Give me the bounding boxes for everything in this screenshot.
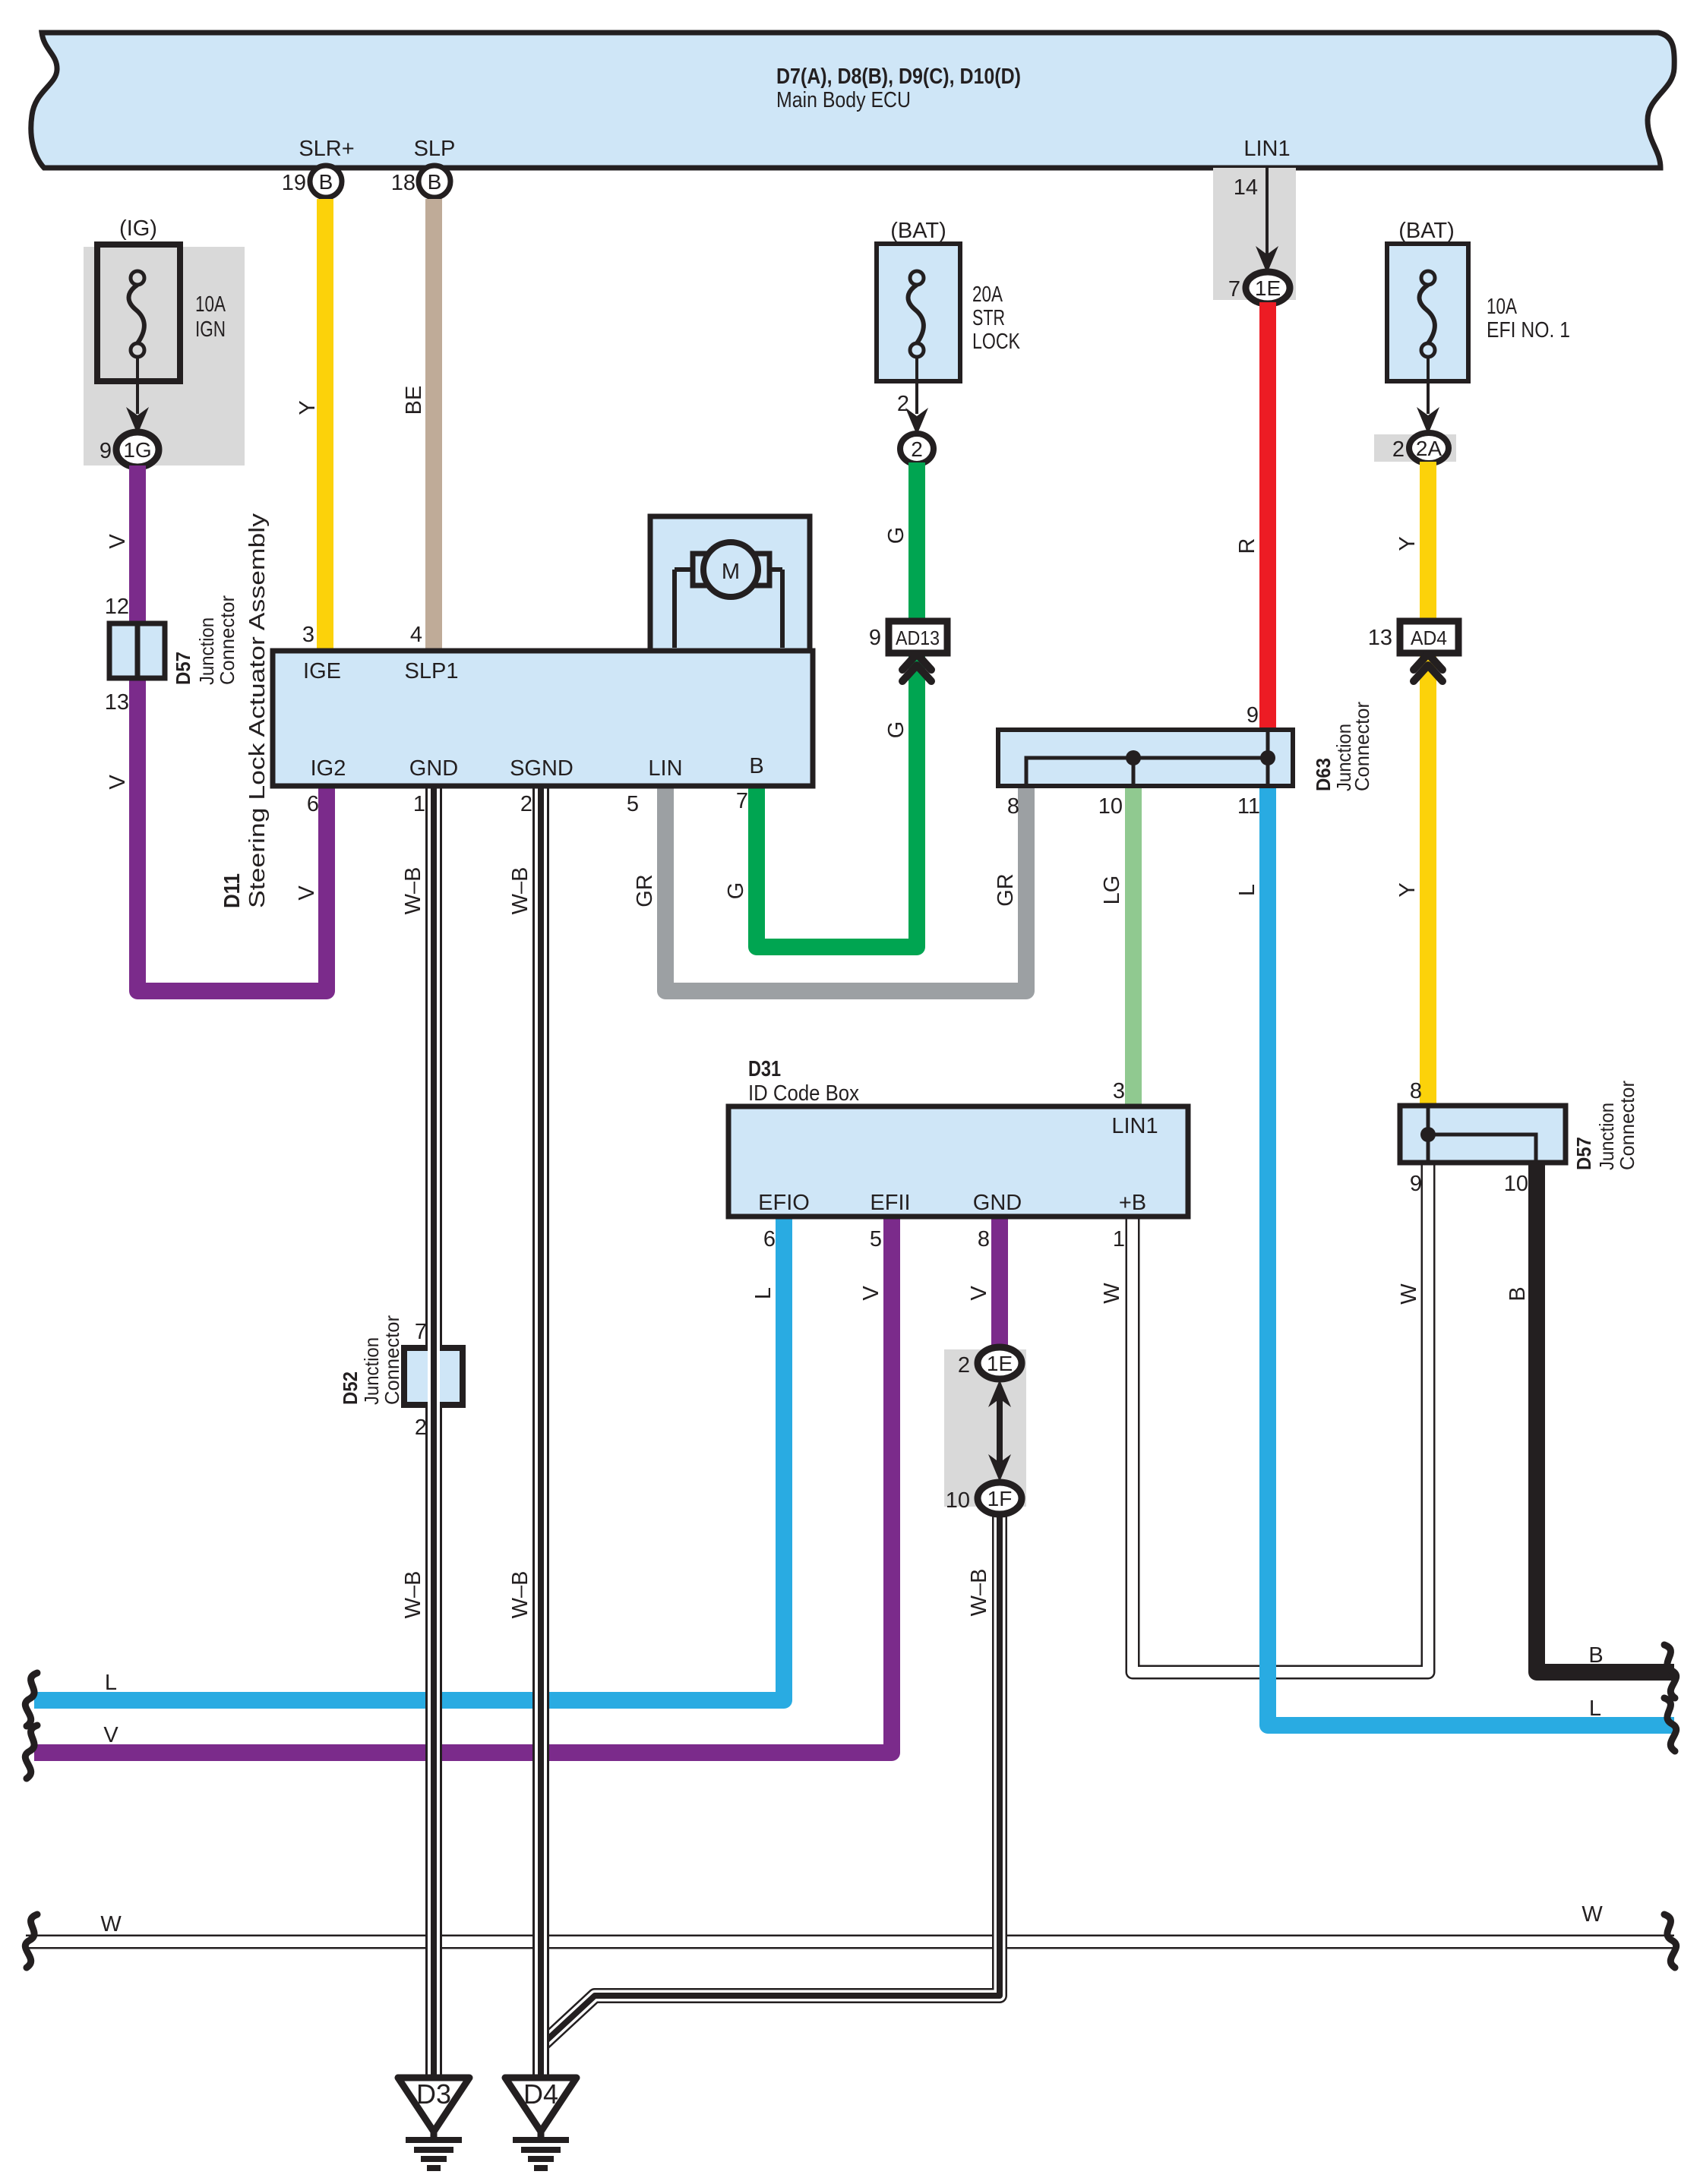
svg-text:10A: 10A xyxy=(195,292,226,317)
wire W-B 1F to D4 (via elbow) xyxy=(542,1512,1000,2044)
svg-text:V: V xyxy=(103,1723,118,1747)
svg-text:SLP: SLP xyxy=(414,137,456,161)
svg-text:SLR+: SLR+ xyxy=(299,137,354,161)
svg-text:D3: D3 xyxy=(416,2078,451,2110)
motor brush contacts xyxy=(693,554,709,585)
svg-text:7: 7 xyxy=(1228,277,1240,301)
wire W +B to D57 pin9 (white U) xyxy=(1133,1163,1428,1672)
AD4 connector xyxy=(1400,621,1458,653)
svg-text:6: 6 xyxy=(307,792,319,816)
svg-text:LIN: LIN xyxy=(648,756,682,781)
svg-text:D57: D57 xyxy=(1572,1137,1595,1170)
wire W-B SGND to D4 ground xyxy=(532,786,549,2078)
svg-text:G: G xyxy=(884,721,908,739)
wire V 1G to IG2 via D57 xyxy=(137,466,327,991)
svg-text:SLP1: SLP1 xyxy=(405,659,459,683)
svg-text:9: 9 xyxy=(100,439,112,463)
svg-text:D7(A), D8(B), D9(C), D10(D): D7(A), D8(B), D9(C), D10(D) xyxy=(776,65,1021,89)
svg-text:10A: 10A xyxy=(1487,295,1518,319)
connector B pin 19 xyxy=(310,166,342,197)
gray shade LIN1 pin 14 xyxy=(1213,168,1296,300)
svg-text:5: 5 xyxy=(627,792,639,816)
svg-text:W: W xyxy=(100,1912,122,1936)
svg-text:2: 2 xyxy=(911,437,923,461)
svg-text:LG: LG xyxy=(1100,876,1124,905)
svg-text:D57: D57 xyxy=(172,652,194,685)
svg-text:W: W xyxy=(1582,1902,1603,1927)
svg-text:12: 12 xyxy=(105,595,129,619)
wire LG D63 pin10 to LIN1 D31 xyxy=(1125,786,1142,1106)
svg-text:W–B: W–B xyxy=(401,1571,425,1619)
connector 1E pin 2 (mid) xyxy=(978,1347,1022,1379)
svg-text:BE: BE xyxy=(402,386,426,415)
svg-text:Junction: Junction xyxy=(195,617,218,685)
connector 1E pin 7 xyxy=(1246,272,1290,304)
svg-text:9: 9 xyxy=(1247,703,1259,727)
svg-text:8: 8 xyxy=(1410,1079,1422,1103)
wire BE SLP to SLP1 xyxy=(425,199,442,654)
svg-text:V: V xyxy=(295,885,319,901)
svg-text:8: 8 xyxy=(1007,794,1019,819)
svg-text:20A: 20A xyxy=(972,282,1003,307)
svg-text:2: 2 xyxy=(897,392,909,416)
D63 junction connector box xyxy=(998,730,1293,786)
svg-text:L: L xyxy=(105,1671,117,1695)
D57 junction connector (right) xyxy=(1400,1106,1566,1163)
svg-text:7: 7 xyxy=(736,789,748,813)
AD13 chevrons xyxy=(902,654,931,670)
svg-text:2A: 2A xyxy=(1416,437,1442,460)
wire B D57 pin10 to right edge xyxy=(1537,1163,1674,1672)
svg-text:EFIO: EFIO xyxy=(758,1191,810,1215)
svg-text:AD13: AD13 xyxy=(896,626,940,649)
ECU D7(A),D8(B),D9(C),D10(D) Main Body ECU band xyxy=(31,33,1674,168)
svg-text:M: M xyxy=(722,560,740,584)
D31 ID Code Box xyxy=(728,1106,1188,1217)
svg-text:W–B: W–B xyxy=(508,867,532,915)
svg-text:4: 4 xyxy=(410,623,422,647)
svg-text:2: 2 xyxy=(520,792,532,816)
svg-text:IG2: IG2 xyxy=(311,756,346,781)
svg-text:G: G xyxy=(724,882,748,900)
wire G fuse2 to B pin7 via AD13 xyxy=(757,462,917,947)
break symbols right edge xyxy=(1664,1645,1676,1698)
svg-text:AD4: AD4 xyxy=(1411,626,1447,649)
wire L D63 pin11 to right edge xyxy=(1268,786,1674,1725)
svg-text:STR: STR xyxy=(972,306,1005,330)
gray shade IG fuse xyxy=(84,247,245,466)
svg-text:W: W xyxy=(1100,1283,1124,1304)
svg-text:Steering Lock Actuator Assembl: Steering Lock Actuator Assembly xyxy=(245,513,270,908)
wire Y 2A to D57 via AD4 xyxy=(1420,462,1436,1106)
svg-text:GND: GND xyxy=(973,1191,1022,1215)
svg-text:Junction: Junction xyxy=(1595,1103,1618,1170)
svg-text:10: 10 xyxy=(1504,1172,1528,1196)
wire V GND D31 to 1E xyxy=(991,1217,1008,1352)
svg-text:6: 6 xyxy=(763,1227,776,1251)
wire V EFII to left edge xyxy=(34,1217,892,1753)
svg-text:L: L xyxy=(751,1287,776,1299)
svg-text:B: B xyxy=(1588,1643,1603,1668)
svg-text:L: L xyxy=(1235,884,1259,896)
svg-text:(BAT): (BAT) xyxy=(1398,219,1455,243)
wire L EFIO to left edge xyxy=(34,1217,784,1700)
break symbols left edge xyxy=(25,1673,37,1726)
svg-text:D4: D4 xyxy=(523,2078,558,2110)
motor frame wires xyxy=(672,570,677,648)
gray shade 2A xyxy=(1374,434,1456,462)
svg-text:9: 9 xyxy=(869,626,881,650)
svg-text:1G: 1G xyxy=(123,438,151,462)
svg-text:10: 10 xyxy=(1098,794,1123,819)
motor box of steering lock actuator xyxy=(650,516,810,651)
svg-text:3: 3 xyxy=(302,623,314,647)
svg-text:9: 9 xyxy=(1410,1172,1422,1196)
gray shade 1E-1F xyxy=(944,1349,1026,1507)
svg-text:2: 2 xyxy=(1392,437,1405,462)
svg-text:10: 10 xyxy=(946,1488,970,1513)
svg-text:14: 14 xyxy=(1234,175,1258,200)
wire W-B GND to D3 ground xyxy=(425,786,442,2078)
svg-text:SGND: SGND xyxy=(510,756,574,781)
D57 junction connector (left) xyxy=(109,623,165,678)
svg-text:5: 5 xyxy=(870,1227,882,1251)
svg-text:(BAT): (BAT) xyxy=(890,219,946,243)
svg-text:D63: D63 xyxy=(1312,758,1335,791)
svg-text:W–B: W–B xyxy=(401,867,425,915)
svg-text:Connector: Connector xyxy=(1351,702,1373,791)
svg-text:W: W xyxy=(1397,1283,1421,1305)
svg-text:ID Code Box: ID Code Box xyxy=(748,1081,859,1106)
svg-text:W–B: W–B xyxy=(967,1569,991,1617)
svg-text:L: L xyxy=(1589,1696,1601,1721)
svg-text:Connector: Connector xyxy=(1616,1081,1638,1170)
svg-text:Connector: Connector xyxy=(216,595,239,685)
AD13 connector xyxy=(889,621,947,653)
svg-text:W–B: W–B xyxy=(508,1571,532,1619)
arrow to 1G xyxy=(136,357,139,414)
double arrow 1E to 1F xyxy=(997,1396,1003,1466)
svg-text:B: B xyxy=(1506,1286,1530,1301)
svg-text:EFI NO. 1: EFI NO. 1 xyxy=(1487,318,1570,342)
svg-text:(IG): (IG) xyxy=(119,216,157,241)
svg-text:Y: Y xyxy=(295,400,320,415)
svg-text:Y: Y xyxy=(1395,882,1420,897)
D11 Steering Lock Actuator Assembly box xyxy=(273,651,813,786)
svg-text:D11: D11 xyxy=(220,873,245,908)
AD4 chevrons xyxy=(1414,654,1442,670)
svg-text:D52: D52 xyxy=(339,1371,362,1405)
svg-text:13: 13 xyxy=(105,690,129,715)
wire Y SLR+ to IGE xyxy=(317,199,333,654)
svg-text:2: 2 xyxy=(958,1353,970,1378)
svg-text:1E: 1E xyxy=(987,1352,1013,1375)
D63 internal bus xyxy=(1026,758,1268,786)
svg-text:IGN: IGN xyxy=(195,317,226,342)
svg-text:V: V xyxy=(967,1286,991,1301)
svg-text:IGE: IGE xyxy=(303,659,341,683)
svg-text:2: 2 xyxy=(415,1415,427,1440)
wire W horizontal full width xyxy=(26,1935,1674,1949)
wire R 1E to D63 pin9 xyxy=(1259,302,1276,730)
svg-text:LIN1: LIN1 xyxy=(1243,137,1290,161)
svg-text:Junction: Junction xyxy=(360,1337,383,1405)
svg-text:7: 7 xyxy=(415,1320,427,1344)
svg-text:G: G xyxy=(884,527,908,544)
D52 junction connector xyxy=(404,1348,463,1405)
svg-text:Connector: Connector xyxy=(381,1315,403,1405)
svg-text:1F: 1F xyxy=(987,1487,1013,1510)
svg-text:EFII: EFII xyxy=(870,1191,910,1215)
svg-text:Main Body ECU: Main Body ECU xyxy=(776,88,911,112)
svg-text:B: B xyxy=(319,170,333,194)
svg-text:GR: GR xyxy=(633,874,657,907)
arrow to 2A xyxy=(1427,357,1430,414)
ground D3 xyxy=(398,2078,469,2132)
svg-text:+B: +B xyxy=(1119,1191,1146,1215)
arrow to 2 xyxy=(915,357,918,414)
svg-text:8: 8 xyxy=(978,1227,990,1251)
D63 bus junction dots xyxy=(1126,750,1141,765)
svg-text:LIN1: LIN1 xyxy=(1111,1114,1158,1138)
svg-text:3: 3 xyxy=(1113,1079,1125,1103)
connector B pin 18 xyxy=(419,166,450,197)
svg-text:V: V xyxy=(106,534,130,549)
svg-text:11: 11 xyxy=(1237,794,1260,819)
svg-text:1E: 1E xyxy=(1255,276,1281,300)
svg-text:LOCK: LOCK xyxy=(972,330,1021,354)
connector 1F pin 10 xyxy=(978,1482,1022,1514)
svg-text:GND: GND xyxy=(409,756,458,781)
svg-text:GR: GR xyxy=(994,873,1018,907)
pin 14 arrow to 1E xyxy=(1266,168,1269,258)
svg-text:D31: D31 xyxy=(748,1057,781,1081)
svg-text:19: 19 xyxy=(282,171,306,195)
connector 1G pin 9 xyxy=(116,432,159,467)
svg-text:V: V xyxy=(106,775,130,790)
svg-text:V: V xyxy=(859,1286,883,1301)
svg-text:1: 1 xyxy=(413,792,425,816)
svg-text:B: B xyxy=(749,754,763,778)
svg-text:R: R xyxy=(1235,538,1259,554)
svg-text:18: 18 xyxy=(391,171,416,195)
wire GR LIN to D63 pin8 xyxy=(665,786,1026,991)
svg-text:B: B xyxy=(428,170,442,194)
motor M circle xyxy=(703,542,758,597)
svg-text:1: 1 xyxy=(1113,1227,1125,1251)
connector 2 xyxy=(900,434,934,464)
ground D4 xyxy=(505,2078,577,2132)
svg-text:13: 13 xyxy=(1368,626,1392,650)
svg-text:Y: Y xyxy=(1395,536,1420,551)
